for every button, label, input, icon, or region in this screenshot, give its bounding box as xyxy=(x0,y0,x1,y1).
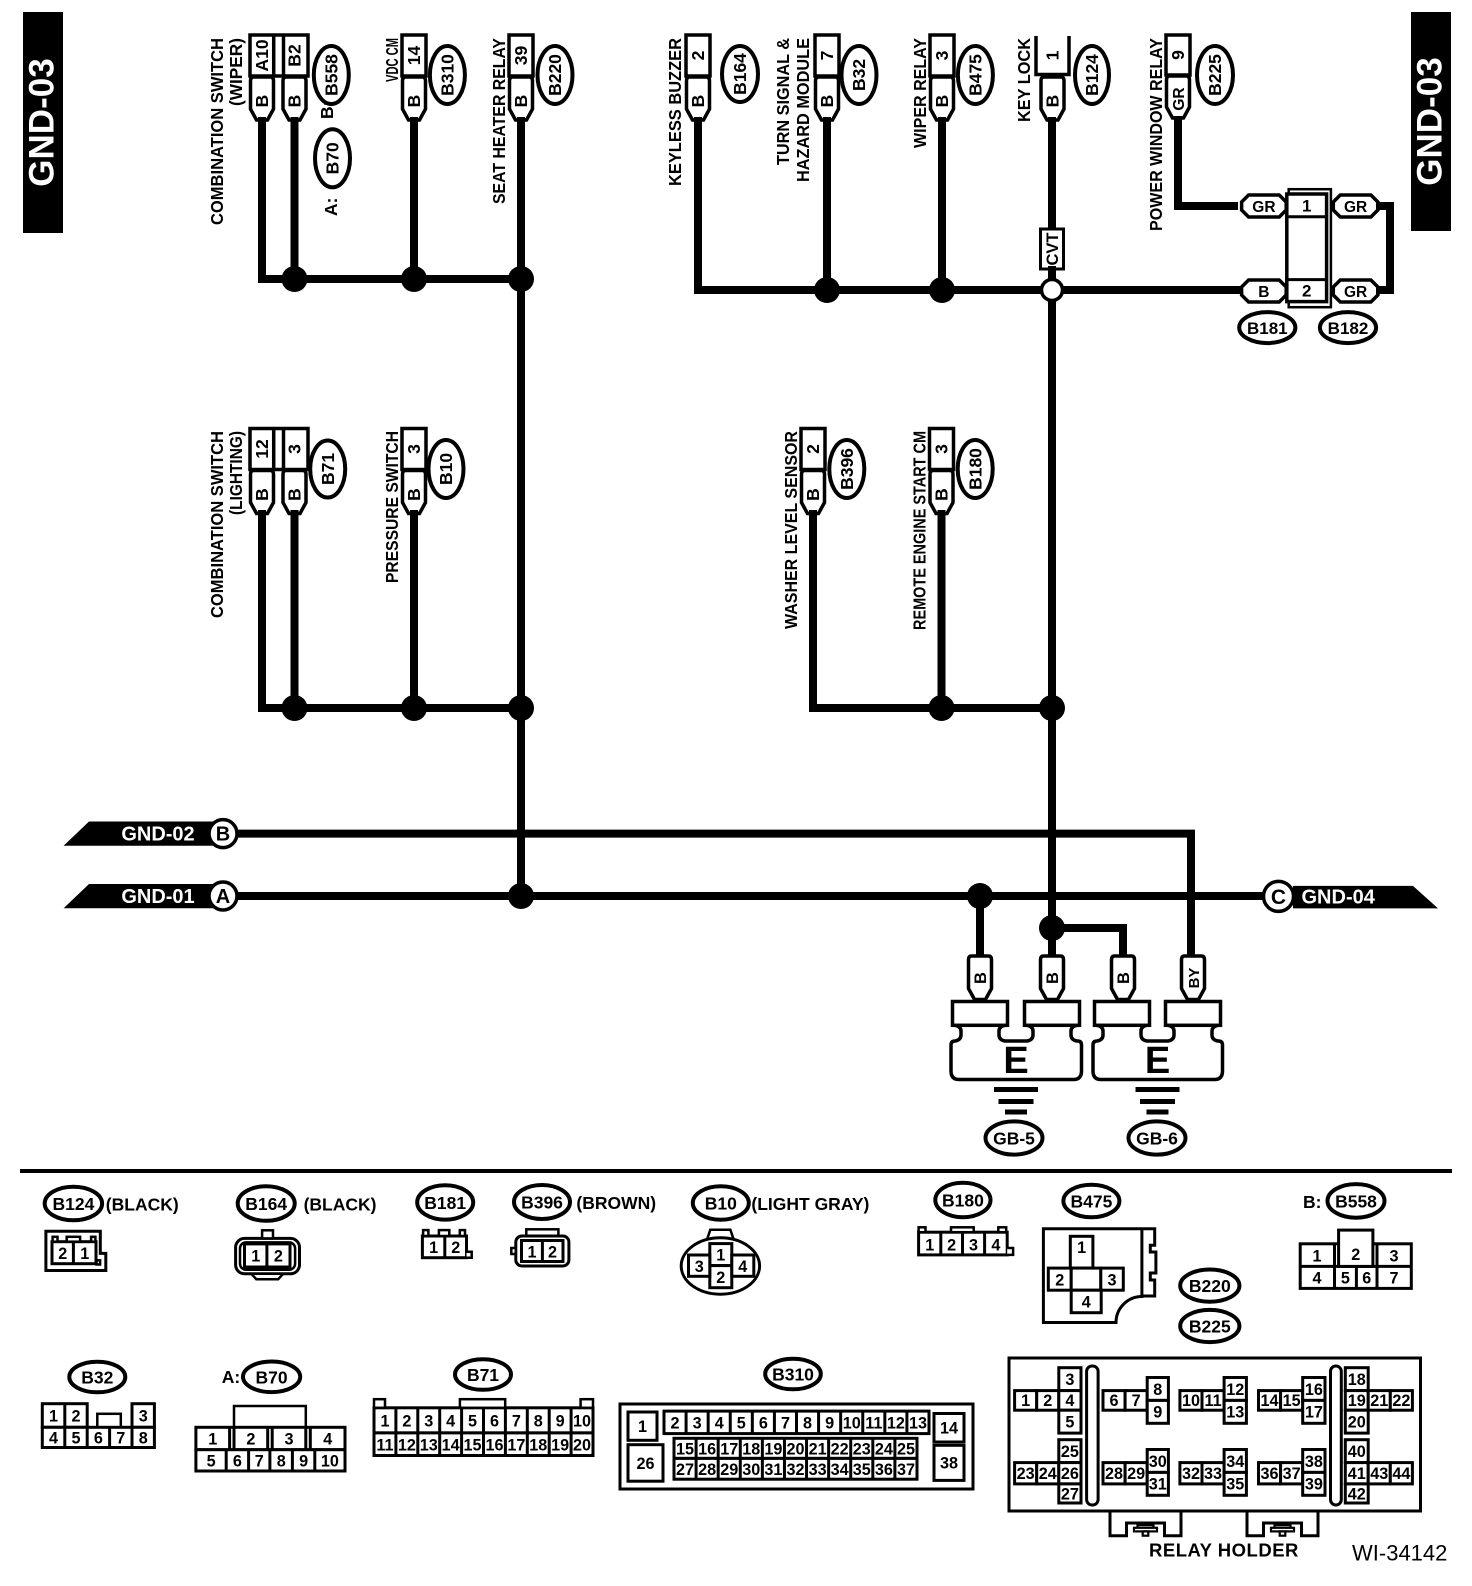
connector label B181 (pinout) xyxy=(417,1185,473,1219)
svg-text:20: 20 xyxy=(786,1440,804,1458)
svg-text:1: 1 xyxy=(380,1412,389,1430)
svg-text:17: 17 xyxy=(720,1440,738,1458)
relay holder cells 23-27 xyxy=(1015,1440,1081,1504)
svg-text:1: 1 xyxy=(925,1236,934,1254)
wire combination switch A10 to bus xyxy=(258,117,266,275)
svg-text:B: B xyxy=(932,95,952,108)
svg-text:RELAY HOLDER: RELAY HOLDER xyxy=(1149,1540,1299,1561)
svg-text:B310: B310 xyxy=(772,1365,814,1385)
svg-text:GR: GR xyxy=(1171,87,1188,110)
svg-text:GB-5: GB-5 xyxy=(993,1129,1035,1149)
svg-text:B: B xyxy=(817,95,837,108)
svg-text:(LIGHT GRAY): (LIGHT GRAY) xyxy=(751,1194,869,1214)
svg-text:A:: A: xyxy=(321,198,341,216)
svg-text:1: 1 xyxy=(49,1408,58,1426)
svg-text:35: 35 xyxy=(1226,1476,1244,1494)
svg-text:4: 4 xyxy=(1312,1270,1321,1288)
svg-text:8: 8 xyxy=(534,1412,543,1430)
svg-text:7: 7 xyxy=(1132,1392,1141,1410)
svg-text:14: 14 xyxy=(1261,1392,1279,1410)
svg-text:B: B xyxy=(216,824,230,846)
svg-text:(BROWN): (BROWN) xyxy=(576,1193,656,1213)
connector VDC CM label xyxy=(382,38,402,82)
connector label B32 (pinout) xyxy=(69,1362,125,1393)
svg-text:B124: B124 xyxy=(52,1194,94,1214)
svg-text:HAZARD MODULE: HAZARD MODULE xyxy=(793,38,813,182)
connector remote engine start cm label xyxy=(910,431,930,630)
svg-text:REMOTE ENGINE START CM: REMOTE ENGINE START CM xyxy=(910,431,930,630)
net label GND-03 (top right) xyxy=(1411,12,1452,231)
svg-text:27: 27 xyxy=(1061,1485,1079,1503)
svg-text:19: 19 xyxy=(1348,1392,1366,1410)
svg-text:B10: B10 xyxy=(705,1194,737,1214)
bus wire GND-02 xyxy=(237,834,1191,956)
svg-text:B475: B475 xyxy=(966,54,986,96)
color label (BLACK) for B164 xyxy=(304,1195,377,1215)
connector pin 2 keyless buzzer xyxy=(686,35,710,120)
svg-text:17: 17 xyxy=(1305,1404,1323,1422)
svg-text:4: 4 xyxy=(1065,1392,1074,1410)
connector pin 2 washer level sensor xyxy=(801,429,825,514)
svg-text:B181: B181 xyxy=(1247,319,1288,338)
svg-text:2: 2 xyxy=(1043,1392,1052,1410)
svg-text:4: 4 xyxy=(49,1430,58,1448)
connector pin 1 key lock xyxy=(1036,36,1069,120)
svg-text:B: B xyxy=(972,972,990,984)
svg-text:31: 31 xyxy=(1149,1476,1167,1494)
relay holder divider bar right xyxy=(1331,1366,1342,1505)
svg-text:36: 36 xyxy=(875,1461,893,1479)
wire washer level sensor to bus xyxy=(809,510,817,704)
svg-text:B181: B181 xyxy=(424,1193,466,1213)
svg-text:6: 6 xyxy=(94,1430,103,1448)
svg-text:13: 13 xyxy=(420,1436,438,1454)
svg-text:36: 36 xyxy=(1261,1465,1279,1483)
connector label B396 (top) xyxy=(829,440,864,498)
junction dot seat-heater/bus xyxy=(508,266,534,292)
svg-text:6: 6 xyxy=(490,1412,499,1430)
connector pinout B310 xyxy=(620,1404,973,1489)
svg-text:POWER WINDOW RELAY: POWER WINDOW RELAY xyxy=(1146,38,1166,231)
svg-text:38: 38 xyxy=(1305,1453,1323,1471)
svg-text:B475: B475 xyxy=(1070,1192,1112,1212)
terminal BY ground 4 xyxy=(1182,956,1205,1000)
relay holder outline xyxy=(1009,1358,1421,1511)
svg-text:43: 43 xyxy=(1370,1465,1388,1483)
connector turn signal & hazard module label xyxy=(773,38,813,182)
connector label B182 xyxy=(1320,312,1376,343)
svg-text:3: 3 xyxy=(1389,1248,1398,1266)
svg-text:5: 5 xyxy=(1341,1270,1350,1288)
svg-text:12: 12 xyxy=(252,439,272,459)
svg-text:B220: B220 xyxy=(1189,1276,1231,1296)
connector label B124 (top) xyxy=(1075,46,1109,104)
wire seat heater relay trunk xyxy=(517,117,525,896)
wire combination lighting 3 to bus xyxy=(291,510,299,708)
connector label B225 (top) xyxy=(1197,46,1233,104)
svg-text:5: 5 xyxy=(1065,1413,1074,1431)
junction dot key-trunk/mid-bus xyxy=(1039,695,1065,721)
connector pin 3 pressure switch xyxy=(402,429,426,514)
connector label B164 (top) xyxy=(722,46,758,102)
connector pinout B71 xyxy=(374,1399,593,1455)
svg-text:PRESSURE SWITCH: PRESSURE SWITCH xyxy=(382,431,402,583)
relay holder cells 14-17 xyxy=(1259,1378,1326,1424)
label WI-34142 xyxy=(1352,1541,1447,1566)
svg-text:2: 2 xyxy=(803,444,823,454)
connector label B220 (pinout) xyxy=(1180,1270,1239,1302)
svg-text:BY: BY xyxy=(1186,968,1203,989)
svg-text:20: 20 xyxy=(1348,1413,1366,1431)
svg-text:9: 9 xyxy=(299,1453,308,1471)
svg-text:7: 7 xyxy=(817,51,837,61)
svg-text:33: 33 xyxy=(809,1461,827,1479)
svg-text:34: 34 xyxy=(831,1461,849,1479)
svg-text:2: 2 xyxy=(71,1408,80,1426)
svg-text:B70: B70 xyxy=(323,142,343,174)
connector combination switch (wiper) label xyxy=(207,38,246,225)
svg-text:32: 32 xyxy=(786,1461,804,1479)
connector pin 39 seat heater relay xyxy=(509,35,533,120)
wire pressure switch to bus xyxy=(410,510,418,708)
svg-text:1: 1 xyxy=(1302,197,1311,216)
svg-text:16: 16 xyxy=(698,1440,716,1458)
svg-text:B:: B: xyxy=(317,101,337,119)
svg-text:GR: GR xyxy=(1252,199,1275,216)
svg-text:14: 14 xyxy=(404,46,424,66)
svg-text:C: C xyxy=(1271,886,1286,909)
connector pressure switch label xyxy=(382,431,402,583)
connector pin 9 power window relay xyxy=(1166,35,1190,118)
svg-text:B71: B71 xyxy=(318,453,338,485)
relay holder mounting bracket left xyxy=(1110,1511,1181,1536)
relay holder cells 1-5 xyxy=(1015,1368,1081,1433)
svg-text:37: 37 xyxy=(1283,1465,1301,1483)
wire branch to GB-6 terminal B xyxy=(1052,928,1123,956)
svg-text:4: 4 xyxy=(738,1258,747,1276)
terminal B pin 2 left (B181) xyxy=(1242,280,1287,302)
svg-text:12: 12 xyxy=(1226,1381,1244,1399)
relay holder cells 6-9 xyxy=(1103,1378,1168,1424)
svg-text:4: 4 xyxy=(991,1236,1000,1254)
svg-text:23: 23 xyxy=(1017,1465,1035,1483)
svg-text:7: 7 xyxy=(781,1414,790,1432)
svg-text:24: 24 xyxy=(875,1440,893,1458)
svg-text:WIPER RELAY: WIPER RELAY xyxy=(910,38,930,148)
svg-text:20: 20 xyxy=(573,1436,591,1454)
connector pinout B396 xyxy=(511,1229,569,1266)
color label (LIGHT GRAY) for B10 xyxy=(751,1194,869,1214)
connector label B10 (pinout) xyxy=(693,1186,749,1219)
connector label B32 (top) xyxy=(842,46,877,104)
svg-text:10: 10 xyxy=(843,1414,861,1432)
ground label GB-5 xyxy=(986,1121,1043,1154)
svg-text:2: 2 xyxy=(451,1239,460,1257)
svg-text:3: 3 xyxy=(404,444,424,454)
connector label B10 (top) xyxy=(429,440,464,498)
terminal B ground 3 xyxy=(1112,956,1135,1000)
svg-text:2: 2 xyxy=(1302,282,1311,301)
label box CVT xyxy=(1041,229,1064,269)
connector label B: (B558) (pinout) xyxy=(1303,1184,1385,1218)
bus wire GND-01 xyxy=(237,892,1263,900)
terminal GR pin 2 right (B182) xyxy=(1333,280,1378,302)
connector pin 3 remote engine start cm xyxy=(930,429,954,514)
svg-text:33: 33 xyxy=(1204,1465,1222,1483)
svg-text:15: 15 xyxy=(464,1436,482,1454)
connector label B71 (top) xyxy=(310,441,345,498)
svg-text:1: 1 xyxy=(1077,1239,1086,1257)
svg-text:37: 37 xyxy=(897,1461,915,1479)
svg-text:B:: B: xyxy=(1303,1192,1321,1212)
svg-text:B124: B124 xyxy=(1082,54,1102,96)
svg-text:1: 1 xyxy=(638,1418,647,1436)
svg-text:1: 1 xyxy=(1312,1248,1321,1266)
svg-text:B396: B396 xyxy=(837,448,857,490)
svg-text:21: 21 xyxy=(1370,1392,1388,1410)
svg-text:1: 1 xyxy=(429,1239,438,1257)
svg-text:13: 13 xyxy=(909,1414,927,1432)
terminal B ground 1 xyxy=(969,956,992,1000)
svg-text:1: 1 xyxy=(251,1248,260,1266)
svg-text:18: 18 xyxy=(1348,1371,1366,1389)
svg-text:7: 7 xyxy=(255,1453,264,1471)
svg-text:1: 1 xyxy=(527,1244,536,1262)
svg-text:GND-03: GND-03 xyxy=(23,58,62,186)
svg-text:COMBINATION SWITCH: COMBINATION SWITCH xyxy=(207,38,227,225)
svg-text:3: 3 xyxy=(932,50,952,60)
svg-text:B164: B164 xyxy=(245,1194,287,1214)
connector label B164 (pinout) xyxy=(238,1186,295,1221)
wire turn signal module to bus xyxy=(823,117,831,290)
color label (BROWN) for B396 xyxy=(576,1193,656,1213)
svg-text:2: 2 xyxy=(716,1269,725,1287)
svg-text:7: 7 xyxy=(116,1430,125,1448)
svg-text:COMBINATION SWITCH: COMBINATION SWITCH xyxy=(207,431,227,618)
wire loop GR1 to GR2 (B182 side) xyxy=(1376,206,1390,290)
net arrow GND-01 (A) xyxy=(64,882,237,910)
svg-text:10: 10 xyxy=(321,1453,339,1471)
svg-text:SEAT HEATER RELAY: SEAT HEATER RELAY xyxy=(489,38,509,204)
svg-text:B: B xyxy=(404,95,424,108)
net label GND-03 (top left) xyxy=(23,12,64,233)
svg-text:GB-6: GB-6 xyxy=(1136,1129,1178,1149)
svg-text:GND-04: GND-04 xyxy=(1302,887,1376,909)
svg-text:A:: A: xyxy=(222,1367,240,1387)
svg-text:B: B xyxy=(511,95,531,108)
ground symbol GB-6 xyxy=(1093,1002,1223,1113)
svg-text:30: 30 xyxy=(742,1461,760,1479)
svg-text:5: 5 xyxy=(71,1430,80,1448)
connector pinout B180 xyxy=(919,1227,1014,1255)
svg-text:11: 11 xyxy=(1204,1392,1221,1410)
wire remote engine start to bus xyxy=(938,510,946,708)
svg-text:39: 39 xyxy=(511,46,531,66)
svg-text:GR: GR xyxy=(1344,284,1367,301)
connector pinout B558 xyxy=(1300,1230,1411,1288)
svg-text:B180: B180 xyxy=(942,1191,984,1211)
svg-text:5: 5 xyxy=(207,1453,216,1471)
relay holder cells 10-13 xyxy=(1180,1378,1247,1424)
svg-text:3: 3 xyxy=(285,444,305,454)
svg-text:B70: B70 xyxy=(256,1367,288,1387)
svg-text:KEY LOCK: KEY LOCK xyxy=(1014,38,1034,122)
svg-text:B310: B310 xyxy=(438,54,458,96)
svg-text:40: 40 xyxy=(1348,1443,1366,1461)
bus wire top-right group xyxy=(698,117,1240,290)
svg-text:31: 31 xyxy=(764,1461,782,1479)
junction dot VDC/bus xyxy=(401,266,427,292)
svg-text:44: 44 xyxy=(1392,1465,1410,1483)
svg-text:6: 6 xyxy=(233,1453,242,1471)
wire keyless buzzer to bus xyxy=(694,117,702,286)
connector pin 3 wiper relay xyxy=(930,35,954,120)
svg-text:B225: B225 xyxy=(1205,54,1225,96)
connector pinout B32 xyxy=(42,1404,154,1448)
svg-text:3: 3 xyxy=(932,444,952,454)
svg-text:2: 2 xyxy=(1351,1246,1360,1264)
terminal GR pin 1 left (B181) xyxy=(1242,195,1287,217)
svg-text:22: 22 xyxy=(1392,1392,1410,1410)
svg-text:8: 8 xyxy=(1153,1381,1162,1399)
svg-text:3: 3 xyxy=(424,1412,433,1430)
relay holder mounting bracket right xyxy=(1247,1511,1318,1536)
svg-text:9: 9 xyxy=(1168,50,1188,60)
svg-text:15: 15 xyxy=(1283,1392,1301,1410)
svg-text:9: 9 xyxy=(1153,1404,1162,1422)
svg-text:B: B xyxy=(404,488,424,501)
svg-text:B225: B225 xyxy=(1189,1317,1231,1337)
svg-text:25: 25 xyxy=(1061,1443,1079,1461)
junction dot remote-start/bus xyxy=(929,695,955,721)
svg-text:6: 6 xyxy=(1110,1392,1119,1410)
svg-text:B: B xyxy=(1115,972,1133,984)
svg-text:17: 17 xyxy=(507,1436,525,1454)
svg-text:2: 2 xyxy=(274,1248,283,1266)
svg-text:B: B xyxy=(932,488,952,501)
svg-text:B: B xyxy=(1258,284,1269,301)
connector label B181 xyxy=(1239,312,1295,343)
relay holder cells 18-22 xyxy=(1345,1368,1412,1433)
svg-text:10: 10 xyxy=(1182,1392,1200,1410)
svg-text:3: 3 xyxy=(969,1236,978,1254)
svg-text:14: 14 xyxy=(940,1420,958,1438)
svg-text:28: 28 xyxy=(1105,1465,1123,1483)
svg-text:3: 3 xyxy=(693,1414,702,1432)
svg-text:(BLACK): (BLACK) xyxy=(106,1195,179,1215)
connector label B180 (pinout) xyxy=(935,1183,990,1217)
junction dot wiper-relay/bus xyxy=(929,277,955,303)
svg-text:9: 9 xyxy=(825,1414,834,1432)
relay holder cells 32-35 xyxy=(1180,1450,1247,1496)
junction dot key-trunk branch xyxy=(1039,915,1065,941)
svg-text:18: 18 xyxy=(742,1440,760,1458)
connector label B396 (pinout) xyxy=(514,1185,570,1219)
connector seat heater relay label xyxy=(489,38,509,204)
svg-text:21: 21 xyxy=(809,1440,827,1458)
svg-text:A: A xyxy=(216,886,230,908)
svg-text:GND-03: GND-03 xyxy=(1411,57,1450,185)
svg-text:26: 26 xyxy=(636,1455,654,1473)
connector label A: (B70) (pinout) xyxy=(222,1362,301,1393)
connector key lock label xyxy=(1014,38,1034,122)
svg-text:B: B xyxy=(1043,95,1063,108)
svg-text:B71: B71 xyxy=(467,1365,499,1385)
connector pin 7 turn signal module xyxy=(815,35,839,120)
bus wire mid-right group xyxy=(813,510,1052,708)
svg-text:12: 12 xyxy=(887,1414,905,1432)
svg-text:B558: B558 xyxy=(322,54,342,96)
svg-text:GND-01: GND-01 xyxy=(121,886,194,908)
wire VDC CM to bus xyxy=(410,117,418,279)
svg-text:(BLACK): (BLACK) xyxy=(304,1195,377,1215)
svg-text:1: 1 xyxy=(716,1247,725,1265)
connector pinout B124 xyxy=(46,1231,106,1270)
svg-text:2: 2 xyxy=(688,50,708,60)
junction open circle key-lock/bus xyxy=(1042,280,1063,301)
svg-text:15: 15 xyxy=(676,1440,694,1458)
svg-text:16: 16 xyxy=(485,1436,503,1454)
svg-text:16: 16 xyxy=(1305,1381,1323,1399)
svg-text:1: 1 xyxy=(80,1245,89,1263)
svg-text:41: 41 xyxy=(1348,1465,1366,1483)
svg-text:4: 4 xyxy=(715,1414,724,1432)
connector washer level sensor label xyxy=(781,431,801,629)
svg-text:B: B xyxy=(252,95,272,108)
svg-text:29: 29 xyxy=(1127,1465,1145,1483)
terminal GR pin 1 right (B182) xyxy=(1333,195,1378,217)
svg-text:26: 26 xyxy=(1061,1465,1079,1483)
svg-text:38: 38 xyxy=(940,1455,958,1473)
svg-text:19: 19 xyxy=(764,1440,782,1458)
svg-text:6: 6 xyxy=(1362,1270,1371,1288)
junction dot seat-trunk/GND-01 xyxy=(508,883,534,909)
svg-text:8: 8 xyxy=(139,1430,148,1448)
svg-text:5: 5 xyxy=(737,1414,746,1432)
junction dot gb5-branch/GND-01 xyxy=(967,883,993,909)
svg-text:B182: B182 xyxy=(1328,319,1369,338)
svg-text:2: 2 xyxy=(947,1236,956,1254)
svg-text:2: 2 xyxy=(58,1245,67,1263)
svg-text:10: 10 xyxy=(573,1412,591,1430)
svg-text:B: B xyxy=(803,488,823,501)
svg-text:1: 1 xyxy=(1043,50,1063,60)
connector label B: (B558) xyxy=(314,46,349,119)
wire GND-01 to GB-5 terminal B xyxy=(976,896,984,956)
connector pinout B181 xyxy=(422,1230,471,1258)
svg-text:5: 5 xyxy=(468,1412,477,1430)
svg-text:14: 14 xyxy=(442,1436,460,1454)
connector pin 14 VDC CM xyxy=(402,35,426,120)
svg-text:7: 7 xyxy=(512,1412,521,1430)
svg-text:3: 3 xyxy=(284,1431,293,1449)
svg-text:28: 28 xyxy=(698,1461,716,1479)
connector label B475 (top) xyxy=(958,46,993,104)
svg-text:29: 29 xyxy=(720,1461,738,1479)
net arrow GND-04 (C) xyxy=(1264,881,1439,911)
net arrow GND-02 (B) xyxy=(64,820,237,848)
relay holder cells 36-39 xyxy=(1259,1450,1326,1496)
svg-text:24: 24 xyxy=(1039,1465,1057,1483)
svg-text:2: 2 xyxy=(548,1244,557,1262)
connector label B310 (top) xyxy=(430,46,465,104)
svg-text:(WIPER): (WIPER) xyxy=(226,38,246,106)
svg-text:12: 12 xyxy=(398,1436,416,1454)
junction dot turn-signal/bus xyxy=(814,277,840,303)
svg-text:9: 9 xyxy=(556,1412,565,1430)
svg-text:4: 4 xyxy=(323,1431,332,1449)
svg-text:B164: B164 xyxy=(730,53,750,95)
